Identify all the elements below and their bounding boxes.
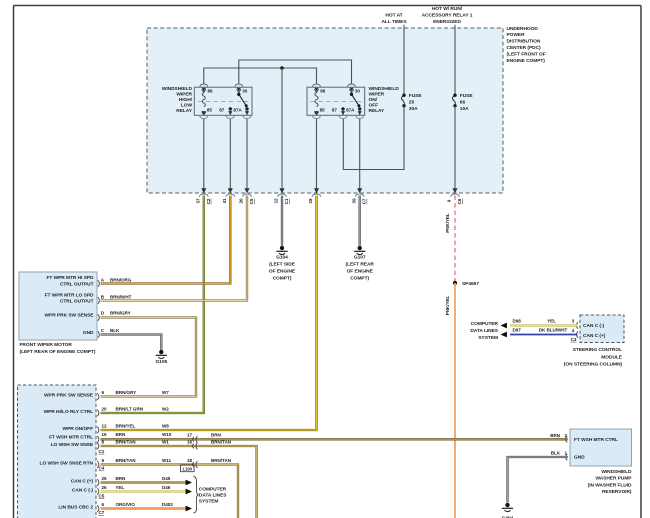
steering control module caption: [564, 347, 623, 368]
pin 30 chevron: [237, 89, 241, 92]
svg-text:CAN C (-): CAN C (-): [72, 488, 94, 494]
svg-text:CENTER (PDC): CENTER (PDC): [507, 45, 542, 51]
svg-text:WIPER: WIPER: [176, 92, 192, 98]
brace: computer data lines system: [194, 477, 199, 514]
svg-text:18: 18: [308, 198, 313, 204]
svg-text:WINDSHIELD: WINDSHIELD: [601, 469, 632, 475]
svg-text:COMPT): COMPT): [273, 276, 292, 282]
page border frame: [13, 6, 15, 518]
svg-text:D98: D98: [513, 318, 522, 323]
svg-text:C7: C7: [99, 510, 105, 515]
svg-text:37: 37: [196, 198, 201, 204]
svg-text:BRN/WHT: BRN/WHT: [110, 294, 132, 299]
svg-text:87A: 87A: [233, 107, 242, 112]
wire: feed to fuse 66: [454, 25, 456, 95]
svg-text:RELAY: RELAY: [369, 108, 386, 114]
pin 85 chevron: [202, 112, 206, 115]
svg-text:W2: W2: [162, 407, 169, 412]
svg-text:85: 85: [207, 107, 213, 112]
svg-text:GND: GND: [574, 455, 585, 461]
svg-text:LIN BUS CBC 2: LIN BUS CBC 2: [58, 505, 93, 511]
washer pump caption: [588, 469, 633, 495]
svg-text:YEL: YEL: [116, 485, 125, 490]
svg-text:(LEFT REAR OF ENGINE COMPT): (LEFT REAR OF ENGINE COMPT): [20, 349, 96, 355]
svg-text:COMPUTER: COMPUTER: [471, 321, 499, 327]
fuse 66 10A: [453, 94, 457, 108]
wire: BRN/ORG from exit 41 to motor pin A: [101, 196, 231, 284]
wire labels: [513, 318, 577, 342]
motor caption: [20, 342, 96, 355]
svg-text:DATA LINES: DATA LINES: [199, 492, 227, 498]
svg-text:D402: D402: [162, 502, 173, 507]
ground G304: [502, 503, 513, 512]
svg-text:OF ENGINE: OF ENGINE: [269, 269, 296, 275]
wire: pin 30 bus between relays: [239, 60, 352, 85]
svg-text:C5: C5: [99, 493, 105, 498]
svg-text:W11: W11: [162, 458, 172, 463]
wire: BLK washer pump gnd: [508, 457, 568, 502]
svg-text:25: 25: [102, 476, 108, 481]
svg-text:C1: C1: [284, 198, 289, 204]
feed label: hot at all times: [381, 13, 407, 26]
svg-text:15: 15: [102, 432, 108, 437]
svg-text:16: 16: [187, 439, 193, 444]
body control module box (dashed): [18, 385, 97, 518]
inline connector C1 pins 17/16: [193, 436, 198, 443]
svg-text:(IN WASHER FLUID: (IN WASHER FLUID: [588, 482, 632, 488]
svg-text:(LEFT SIDE: (LEFT SIDE: [269, 262, 296, 268]
svg-text:(LEFT REAR: (LEFT REAR: [346, 262, 375, 268]
svg-text:BRN: BRN: [550, 433, 561, 438]
ground G107: [354, 246, 365, 255]
motor pin connectors: [98, 280, 100, 287]
label: computer data lines system (right): [470, 321, 498, 341]
svg-text:66: 66: [460, 100, 466, 106]
svg-text:25: 25: [409, 100, 415, 106]
wire: BRN/GRY motor pin D to WPR PRK SW SENSE: [101, 318, 197, 397]
label: windshield wiper high/low relay: [162, 86, 193, 114]
svg-text:COMPT): COMPT): [350, 276, 369, 282]
wire: pin 86 ground bus: [204, 68, 317, 85]
svg-text:W10: W10: [162, 432, 172, 437]
svg-text:ENGINE COMPT): ENGINE COMPT): [507, 58, 546, 64]
svg-text:D97: D97: [513, 328, 522, 333]
svg-text:W8: W8: [162, 424, 169, 429]
switch 30 to 87A: [237, 93, 240, 96]
svg-text:WINDSHIELD: WINDSHIELD: [162, 86, 193, 92]
wire: BLK motor pin C to G105: [101, 335, 162, 350]
svg-text:FRONT WIPER MOTOR: FRONT WIPER MOTOR: [20, 342, 73, 348]
svg-text:BRN/LT GRN: BRN/LT GRN: [116, 407, 144, 412]
svg-text:ORG/VIO: ORG/VIO: [116, 502, 136, 507]
svg-text:CAN C (+): CAN C (+): [71, 479, 94, 485]
svg-text:SYSTEM: SYSTEM: [199, 498, 219, 504]
relay U1: windshield wiper high/low relay: [194, 84, 252, 118]
wire: relay1 pin 87A drop: [246, 119, 248, 190]
svg-text:C4: C4: [99, 466, 105, 471]
wire: BLK from exit 12 to G104: [281, 196, 283, 246]
svg-text:WPR PRK SW SENSE: WPR PRK SW SENSE: [44, 393, 94, 399]
svg-text:BRN: BRN: [116, 432, 127, 437]
svg-text:FT WPR MTR HI SPD: FT WPR MTR HI SPD: [46, 275, 94, 281]
svg-text:D46: D46: [162, 485, 171, 490]
svg-text:FT WSH MTR CTRL: FT WSH MTR CTRL: [574, 437, 618, 443]
wire: YEL CAN C (-): [101, 490, 187, 492]
svg-text:WINDSHIELD: WINDSHIELD: [369, 86, 400, 92]
svg-text:BRN: BRN: [116, 476, 127, 481]
svg-text:DISTRIBUTION: DISTRIBUTION: [507, 39, 541, 45]
svg-text:HOT W/ RUN/: HOT W/ RUN/: [432, 6, 463, 12]
svg-text:CTRL OUTPUT: CTRL OUTPUT: [60, 281, 94, 287]
svg-text:(LEFT FRONT OF: (LEFT FRONT OF: [507, 51, 546, 57]
wire: BRN/LT GRN from exit 37 to WPR HI/LO RLY CTRL: [101, 196, 204, 414]
svg-text:10A: 10A: [460, 106, 469, 112]
ground G105: [156, 350, 167, 359]
svg-text:20: 20: [239, 198, 244, 204]
svg-text:HIGH/: HIGH/: [179, 97, 193, 103]
wire: relay2 pin 87A drop: [359, 119, 361, 190]
svg-text:RELAY: RELAY: [176, 108, 193, 114]
wire: BRN/YEL from exit 18 to WPR ON/OFF: [101, 196, 317, 431]
windshield washer pump box: [570, 429, 632, 466]
svg-text:YEL: YEL: [547, 318, 556, 323]
svg-text:BRN/GRY: BRN/GRY: [110, 311, 131, 316]
motor pin labels: [101, 277, 132, 333]
svg-text:SP4667: SP4667: [462, 281, 479, 287]
svg-text:C6: C6: [457, 198, 462, 204]
svg-text:FUSE: FUSE: [409, 93, 423, 99]
feed label: hot w/ run accessory relay 1 energized: [422, 6, 473, 25]
svg-text:18: 18: [187, 458, 193, 463]
svg-text:C2: C2: [206, 198, 211, 204]
svg-text:WIPER: WIPER: [369, 92, 385, 98]
svg-text:CTRL OUTPUT: CTRL OUTPUT: [60, 298, 94, 304]
wire: fuse 25 to relay2 pin 87: [343, 106, 404, 170]
svg-text:MODULE: MODULE: [601, 355, 623, 361]
svg-text:D45: D45: [162, 476, 171, 481]
svg-text:ON/: ON/: [369, 97, 378, 103]
svg-text:SYSTEM: SYSTEM: [478, 335, 498, 341]
module connector ids: [99, 449, 105, 515]
svg-text:UNDERHOOD: UNDERHOOD: [507, 26, 539, 32]
underhood power distribution center (PDC) box: [147, 28, 503, 193]
module pin connectors: [97, 393, 99, 400]
svg-text:(ON STEERING COLUMN): (ON STEERING COLUMN): [564, 362, 623, 368]
junction node on 86 bus: [280, 66, 284, 70]
svg-text:COMPUTER: COMPUTER: [199, 486, 227, 492]
wire: relay1 pin 87 drop: [229, 119, 231, 190]
svg-text:17: 17: [187, 433, 193, 438]
svg-text:G104: G104: [276, 255, 288, 261]
svg-text:WPR ON/OFF: WPR ON/OFF: [63, 426, 94, 432]
svg-text:BRN/TAN: BRN/TAN: [211, 458, 232, 463]
svg-text:C3: C3: [571, 337, 577, 342]
pin 87 stub: [229, 107, 232, 110]
svg-text:BRN/TAN: BRN/TAN: [116, 458, 137, 463]
wire: BRN CAN C (+): [101, 481, 187, 483]
wire: YEL CAN C (-) to computer data lines: [510, 324, 578, 326]
svg-text:BRN: BRN: [211, 433, 222, 438]
svg-text:BRN/YEL: BRN/YEL: [116, 424, 136, 429]
svg-text:CAN C (-): CAN C (-): [583, 323, 605, 329]
wire: feed to fuse 25: [403, 25, 405, 95]
module pin numbers and wire labels: [102, 390, 174, 507]
relay U2: windshield wiper on/off relay: [307, 84, 365, 118]
front wiper motor box: [19, 272, 97, 340]
svg-text:PNK/YEL: PNK/YEL: [445, 295, 450, 315]
svg-text:30: 30: [242, 88, 248, 93]
wire: PNK below splice: [454, 283, 456, 518]
svg-text:HOT AT: HOT AT: [385, 13, 402, 19]
svg-text:FT WPR MTR LO SPD: FT WPR MTR LO SPD: [45, 292, 94, 298]
svg-text:CAN C (+): CAN C (+): [583, 333, 606, 339]
svg-text:LO WSH SW SNSE: LO WSH SW SNSE: [51, 442, 94, 448]
svg-text:BLK: BLK: [110, 328, 120, 333]
svg-text:BRN/ORG: BRN/ORG: [110, 277, 132, 282]
svg-text:39: 39: [351, 198, 356, 204]
splice SP4667: [453, 281, 457, 285]
boundary connectors: [200, 84, 208, 91]
svg-text:BLK: BLK: [551, 451, 561, 456]
svg-text:PNK/YEL: PNK/YEL: [445, 213, 450, 233]
svg-text:30A: 30A: [409, 106, 418, 112]
wire: relay2 pin 85 drop: [316, 119, 318, 190]
wire: BRN/TAN LO WSH SW SNSE: [101, 446, 257, 518]
wire: BRN/WHT from exit 20 to motor pin B: [101, 196, 248, 301]
svg-text:ENERGIZED: ENERGIZED: [433, 19, 461, 25]
svg-text:W7: W7: [162, 390, 169, 395]
svg-text:POWER: POWER: [507, 32, 526, 38]
wire: BRN/TAN LO WSH SW SNSE RTN: [101, 465, 239, 518]
svg-text:12: 12: [274, 198, 279, 204]
svg-text:WASHER PUMP: WASHER PUMP: [595, 476, 632, 482]
svg-text:OF ENGINE: OF ENGINE: [347, 269, 374, 275]
svg-text:LOW: LOW: [181, 103, 193, 109]
PDC exit connectors: [199, 188, 208, 197]
svg-text:GND: GND: [83, 330, 94, 336]
svg-text:BRN/GRY: BRN/GRY: [116, 390, 137, 395]
svg-text:WPR PRK SW SENSE: WPR PRK SW SENSE: [45, 313, 95, 319]
wire: BLK from exit 39 to G107: [359, 196, 361, 246]
ground G104: [276, 246, 287, 255]
fuse 25 30A: [402, 94, 406, 108]
svg-text:FT WSH MTR CTRL: FT WSH MTR CTRL: [49, 435, 93, 441]
svg-text:G105: G105: [155, 359, 167, 365]
wire: DK BLU/WHT CAN C (+): [510, 334, 578, 336]
wire: BRN FT WSH MTR CTRL to washer pump: [101, 438, 568, 440]
svg-text:DK BLU/WHT: DK BLU/WHT: [539, 328, 568, 333]
svg-text:12: 12: [102, 424, 108, 429]
PDC caption: [507, 26, 546, 64]
svg-text:26: 26: [102, 485, 108, 490]
svg-text:DATA LINES: DATA LINES: [470, 328, 498, 334]
label: windshield wiper on/off relay: [369, 86, 400, 114]
module row names: [40, 393, 94, 511]
svg-text:86: 86: [208, 88, 214, 93]
exit pin labels: [196, 198, 463, 204]
wire: fuse 66 to exit 9: [454, 106, 456, 190]
svg-text:FUSE: FUSE: [460, 93, 474, 99]
svg-text:ACCESSORY RELAY 1: ACCESSORY RELAY 1: [422, 13, 473, 19]
coil: [202, 93, 205, 107]
svg-text:OFF: OFF: [369, 103, 379, 109]
steering control module box (dashed): [580, 315, 624, 343]
svg-text:L100: L100: [183, 466, 193, 471]
svg-text:STEERING CONTROL: STEERING CONTROL: [573, 347, 622, 353]
svg-text:LO WSH SW SNSE RTN: LO WSH SW SNSE RTN: [40, 461, 94, 467]
svg-text:C5: C5: [249, 198, 254, 204]
svg-text:41: 41: [222, 198, 227, 204]
svg-text:87: 87: [219, 107, 225, 112]
svg-text:WPR HI/LO RLY CTRL: WPR HI/LO RLY CTRL: [44, 409, 94, 415]
svg-text:C1: C1: [99, 449, 105, 454]
wire: ORG/VIO LIN BUS CBC 2: [101, 507, 187, 509]
pin 86 chevron: [202, 89, 206, 92]
svg-text:C7: C7: [362, 198, 367, 204]
svg-text:RESERVOIR): RESERVOIR): [602, 489, 632, 495]
wire: PNK/YEL dashed from exit 9 to splice: [454, 196, 456, 284]
svg-text:ALL TIMES: ALL TIMES: [381, 19, 407, 25]
svg-text:BRN/TAN: BRN/TAN: [211, 439, 232, 444]
pin texts: [207, 88, 248, 112]
wire: relay1 pin 85 drop: [203, 119, 205, 190]
wire: ground drop to exit 12: [281, 68, 283, 190]
svg-text:20: 20: [102, 407, 108, 412]
inline connector label L100: [181, 465, 195, 472]
svg-text:G107: G107: [354, 255, 366, 261]
